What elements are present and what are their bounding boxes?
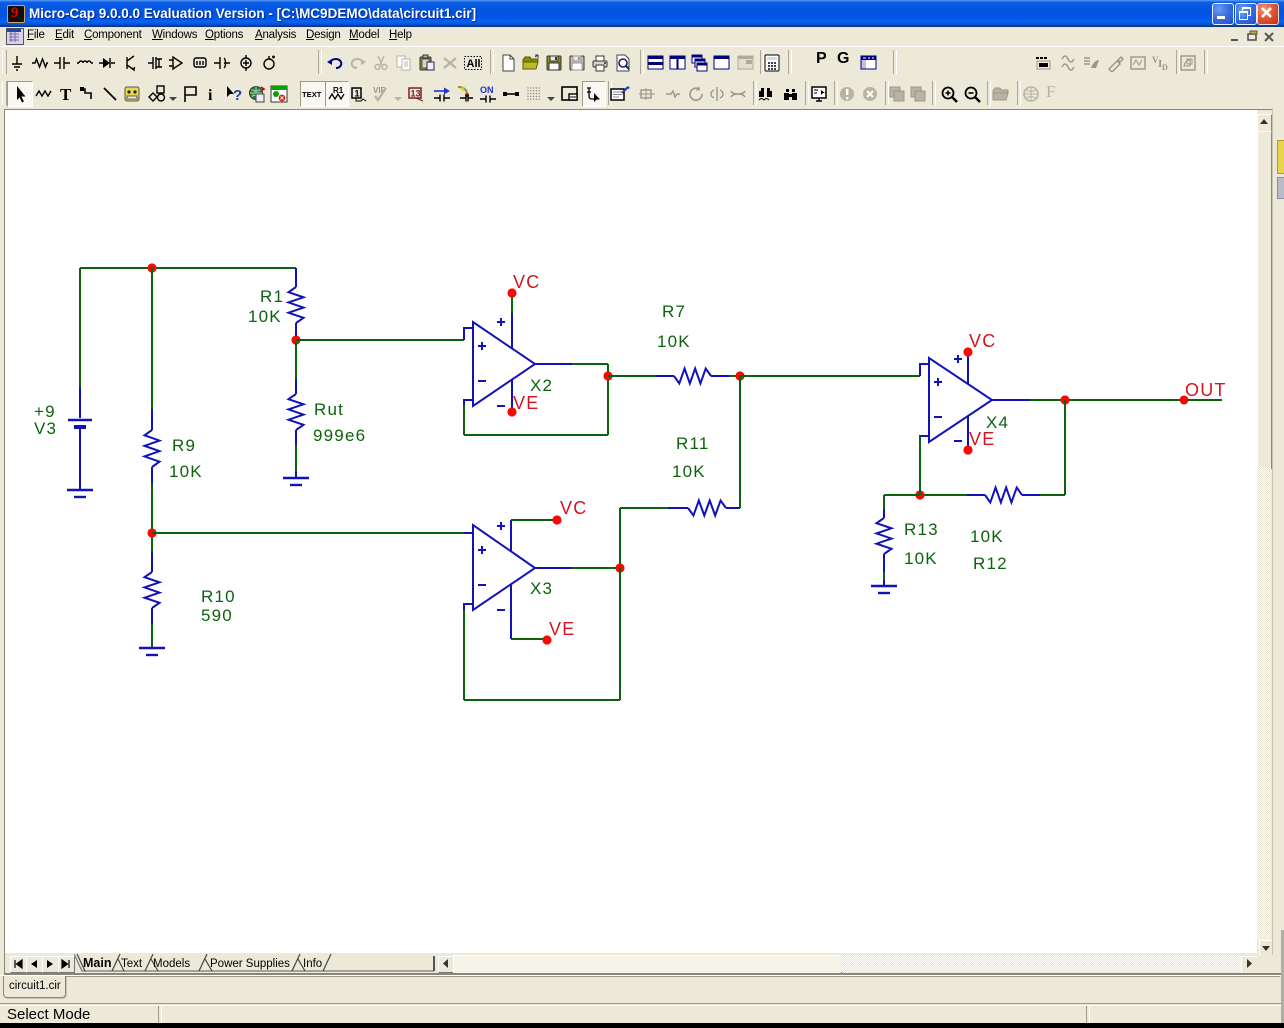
wire R11 left <box>620 508 668 568</box>
op-amp X2 VC plus sign <box>497 318 505 326</box>
label X3 <box>530 579 553 598</box>
wire top rail <box>80 267 296 269</box>
ground Rut <box>283 471 309 485</box>
op-amp X4 minus sign inner <box>934 416 942 418</box>
minimize button <box>1212 3 1234 25</box>
op-amp X2 VC pin <box>511 296 513 348</box>
svg-text:D: D <box>1162 63 1168 72</box>
svg-text:Main: Main <box>83 956 111 970</box>
restore button <box>1235 3 1257 25</box>
op-amp X2 output lead <box>535 363 572 365</box>
wire R7 to node <box>729 375 740 377</box>
wire Rut bottom <box>295 445 297 471</box>
svg-text:R11: R11 <box>676 434 710 453</box>
label R13 value 10K <box>904 549 938 568</box>
title text <box>29 6 476 21</box>
svg-text:VC: VC <box>969 331 996 351</box>
mdi window buttons <box>1228 29 1243 44</box>
label VE X4 <box>969 429 995 449</box>
svg-text:R12: R12 <box>973 554 1008 573</box>
op-amp X2 minus input pin <box>464 400 474 407</box>
op-amp X3 minus sign inner <box>478 584 486 586</box>
label R7 value 10K <box>657 332 691 351</box>
op-amp X4 VC pin <box>967 356 969 384</box>
label X2 <box>530 376 553 395</box>
node VC X2 <box>507 288 516 297</box>
node X4 output <box>1060 395 1069 404</box>
svg-text:VE: VE <box>513 393 539 413</box>
svg-text:R7: R7 <box>662 302 686 321</box>
svg-text:V3: V3 <box>34 419 57 438</box>
wire R9 top <box>151 268 153 409</box>
op-amp X4 VC plus sign <box>954 355 962 363</box>
op-amp X2 plus sign inner <box>478 342 486 350</box>
wire battery top <box>79 268 81 387</box>
svg-text:ON: ON <box>480 85 494 95</box>
wire X2 out to R7 <box>608 375 656 377</box>
op-amp X3 VE minus sign <box>497 609 505 611</box>
svg-text:T: T <box>60 85 72 103</box>
resistor R12 <box>967 488 1040 503</box>
op-amp X4 VE pin <box>967 416 969 446</box>
wire R11 riser <box>739 376 741 508</box>
svg-text:Text: Text <box>121 958 143 970</box>
sheet tabs <box>74 954 444 973</box>
wire R9 bottom <box>151 483 153 551</box>
resistor R10 <box>145 551 160 624</box>
svg-text:TEXT: TEXT <box>302 90 322 99</box>
label R12 <box>973 554 1008 573</box>
svg-text:10K: 10K <box>169 462 203 481</box>
node VE X3 <box>542 635 551 644</box>
svg-text:13: 13 <box>411 89 421 99</box>
wire X4 output <box>1030 399 1180 401</box>
app icon <box>7 5 25 23</box>
horizontal scrollbar <box>433 956 439 971</box>
node VE X4 <box>963 445 972 454</box>
wire R1 node to X2 <box>296 339 464 341</box>
resistor R7 <box>656 369 729 384</box>
svg-text:i: i <box>208 87 213 103</box>
label +9 <box>34 402 56 421</box>
label Rut <box>314 400 344 419</box>
mdi child icon <box>6 28 24 45</box>
svg-text:All: All <box>467 58 481 70</box>
op-amp X4 plus sign inner <box>934 378 942 386</box>
svg-text:VC: VC <box>560 498 587 518</box>
svg-text:X3: X3 <box>530 579 553 598</box>
label R12 value 10K <box>970 527 1004 546</box>
svg-text:Models: Models <box>153 958 190 970</box>
op-amp X3 plus input pin <box>464 532 474 534</box>
wire X4 feedback right <box>1040 400 1065 495</box>
svg-text:?: ? <box>233 87 242 103</box>
op-amp X3 minus input pin <box>464 604 474 611</box>
label R1 <box>260 287 284 306</box>
wire R10 bottom <box>151 624 153 648</box>
node VC X4 <box>963 347 972 356</box>
toolbar row 1 <box>0 46 1284 79</box>
label OUT <box>1185 380 1227 400</box>
node OUT <box>1180 396 1189 405</box>
status bar <box>0 1003 1284 1024</box>
wire X2 output <box>572 364 608 435</box>
ground R10 <box>139 648 165 655</box>
resistor R9 <box>145 409 160 483</box>
ground R13 <box>871 580 897 593</box>
label R10 <box>201 587 236 606</box>
document tab row <box>0 975 1284 1003</box>
node VC X3 <box>552 515 561 524</box>
label VE X3 <box>549 619 575 639</box>
ground battery <box>67 490 93 497</box>
label Rut value 999e6 <box>313 426 366 445</box>
resistor R11 <box>668 501 740 516</box>
label R11 <box>676 434 710 453</box>
node junction R9/R10 <box>147 528 156 537</box>
resistor R13 <box>877 509 892 572</box>
op-amp X2 VE pin <box>511 380 513 408</box>
label R11 value 10K <box>672 462 706 481</box>
wire node to X4 <box>740 375 920 377</box>
label VE X2 <box>513 393 539 413</box>
op-amp X2 plus input pin <box>464 328 474 340</box>
title bar <box>0 0 1284 27</box>
node X3 output <box>615 563 624 572</box>
label R1 value 10K <box>248 307 282 326</box>
op-amp X3 plus sign inner <box>478 546 486 554</box>
op-amp X2 VE minus sign <box>497 405 505 407</box>
svg-text:OUT: OUT <box>1185 380 1227 400</box>
node junction V3/R9 <box>147 263 156 272</box>
right docked strip <box>1272 108 1284 975</box>
label R9 <box>172 436 196 455</box>
svg-text:R1: R1 <box>260 287 284 306</box>
wire junction to X3 plus <box>152 532 464 534</box>
svg-text:VE: VE <box>969 429 995 449</box>
label V3 <box>34 419 57 438</box>
toolbar row 2 <box>0 78 1284 109</box>
svg-text:R9: R9 <box>172 436 196 455</box>
svg-text:999e6: 999e6 <box>313 426 366 445</box>
wire node to R13 <box>884 495 920 509</box>
op-amp X3 body <box>473 525 535 610</box>
label VC X3 <box>560 498 587 518</box>
op-amp X4 output lead <box>992 399 1030 401</box>
node R7/R11/X4 <box>735 371 744 380</box>
close button <box>1257 3 1279 25</box>
wire X4 minus feedback <box>919 436 921 495</box>
resistor R1 <box>289 268 304 338</box>
op-amp X3 output lead <box>535 567 572 569</box>
op-amp X4 minus input pin <box>920 436 930 443</box>
svg-text:1: 1 <box>355 89 360 99</box>
wire X3 feedback <box>464 568 620 700</box>
label X4 <box>986 413 1009 432</box>
svg-text:VC: VC <box>513 272 540 292</box>
svg-text:X2: X2 <box>530 376 553 395</box>
label VC X2 <box>513 272 540 292</box>
op-amp X4 VE minus sign <box>954 440 962 442</box>
svg-text:10K: 10K <box>970 527 1004 546</box>
label R10 value 590 <box>201 606 233 625</box>
menu bar <box>0 27 1284 46</box>
op-amp X3 VE pin <box>511 584 544 639</box>
node R12/R13/X4minus <box>915 490 924 499</box>
svg-text:Rut: Rut <box>314 400 344 419</box>
op-amp X2 body <box>473 322 535 406</box>
op-amp X3 VC pin <box>511 520 554 552</box>
wire X3 output <box>572 567 620 569</box>
wire OUT stub <box>1188 399 1222 401</box>
label R7 <box>662 302 686 321</box>
svg-text:10K: 10K <box>248 307 282 326</box>
svg-text:VE: VE <box>549 619 575 639</box>
circuit1.cir tab <box>3 976 66 998</box>
resistor Rut <box>289 379 304 445</box>
svg-text:X4: X4 <box>986 413 1009 432</box>
op-amp X4 body <box>929 358 992 442</box>
svg-text:Info: Info <box>303 958 322 970</box>
label R9 value 10K <box>169 462 203 481</box>
label VC X4 <box>969 331 996 351</box>
svg-text:R10: R10 <box>201 587 236 606</box>
svg-text:10K: 10K <box>672 462 706 481</box>
svg-text:10K: 10K <box>904 549 938 568</box>
node R1/Rut <box>291 335 300 344</box>
svg-text:10K: 10K <box>657 332 691 351</box>
bottom tab + hscroll row <box>5 953 1258 973</box>
bottom black strip <box>0 1023 1284 1028</box>
op-amp X4 plus input pin <box>920 364 930 376</box>
vertical scrollbar <box>1257 110 1272 956</box>
svg-text:590: 590 <box>201 606 233 625</box>
svg-text:R13: R13 <box>904 520 939 539</box>
wire X2 feedback bottom <box>464 405 608 435</box>
label R13 <box>904 520 939 539</box>
node X2 output <box>603 371 612 380</box>
node VE X2 <box>507 407 516 416</box>
battery V3 <box>68 387 92 489</box>
wire R13 bottom <box>883 572 885 580</box>
wire R12 to node <box>920 494 967 496</box>
svg-text:Power Supplies: Power Supplies <box>210 958 290 970</box>
op-amp X2 minus sign inner <box>478 380 486 382</box>
op-amp X3 VC plus sign <box>497 522 505 530</box>
wire Rut top <box>295 342 297 379</box>
